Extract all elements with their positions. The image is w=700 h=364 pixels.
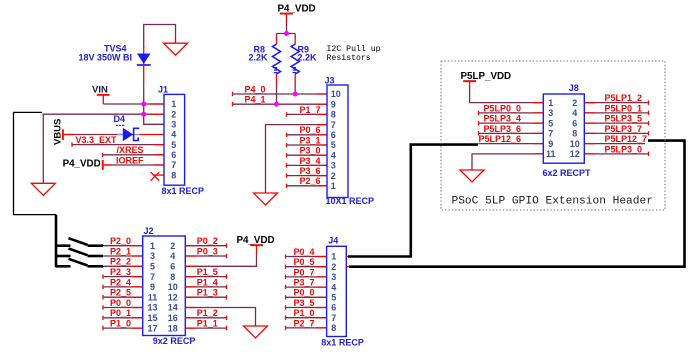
R9 tiny marking bbox=[293, 67, 296, 73]
wire P0_6 to J3 pin 6 bbox=[287, 134, 328, 136]
wire P2_5 to J2 pin 11 bbox=[103, 296, 143, 298]
wire P0_0 to J4 pin 5 bbox=[285, 296, 326, 298]
junction node P4_1/R8 bbox=[274, 102, 279, 107]
dangling end P5LP1_2 bbox=[648, 100, 650, 104]
wire P1_3 from J2 pin 12 bbox=[185, 296, 226, 298]
dangling end P3_4 bbox=[286, 163, 288, 167]
junction node P4_0/R9 bbox=[293, 92, 298, 97]
wire VBUS to J1 pin 2 bbox=[43, 113, 165, 115]
svg-text:P0_1: P0_1 bbox=[110, 308, 131, 318]
wire P1_5 from J2 pin 8 bbox=[185, 276, 226, 278]
dangling end P5LP3_7 bbox=[648, 131, 650, 135]
svg-text:6x2 RECPT: 6x2 RECPT bbox=[543, 168, 592, 178]
J4 pin 2 stub bbox=[346, 266, 350, 268]
svg-text:P2_5: P2_5 bbox=[110, 288, 131, 298]
svg-text:VIN: VIN bbox=[92, 84, 108, 95]
dangling end P5LP3_6 bbox=[478, 131, 480, 135]
svg-text:P0_5: P0_5 bbox=[293, 257, 314, 267]
wire TVS4 anode stub bbox=[143, 46, 145, 55]
wire VIN to J1 pin 1 bbox=[103, 103, 164, 105]
connector J1 body bbox=[164, 94, 185, 185]
dangling end P1_1 bbox=[226, 326, 228, 330]
svg-text:18V 350W BI: 18V 350W BI bbox=[79, 52, 133, 62]
wire P1_7 to J3 pin 8 bbox=[287, 113, 328, 115]
wire P0_4 to J4 pin 1 bbox=[285, 256, 326, 258]
wire J3 pin 7 to ground bbox=[266, 125, 328, 193]
dangling end P4_0 bbox=[232, 92, 234, 96]
wire P3_6 to J3 pin 2 bbox=[287, 175, 328, 177]
svg-text:P5LP0_1: P5LP0_1 bbox=[605, 103, 643, 113]
wire /XRES to J1 pin 6 bbox=[103, 154, 165, 156]
svg-text:I2C Pull up: I2C Pull up bbox=[327, 44, 381, 54]
svg-text:P1_7: P1_7 bbox=[299, 105, 320, 115]
wire resistor tops bbox=[277, 33, 296, 35]
ground bbox=[244, 326, 268, 338]
wire TVS to VIN/VBUS junction bbox=[143, 84, 145, 114]
dangling end P1_4 bbox=[226, 285, 228, 289]
wire P4_VDD stem bbox=[256, 246, 258, 254]
wire black harness loop bbox=[14, 112, 57, 214]
dangling end P0_0 bbox=[102, 305, 104, 309]
wire P0_7 to J4 pin 3 bbox=[285, 276, 326, 278]
J1 pin 2 stub bbox=[150, 113, 164, 115]
wire P5LP3_4 to J8 pin 5 bbox=[479, 122, 544, 124]
svg-text:P1_5: P1_5 bbox=[197, 267, 218, 277]
dangling end P2_4 bbox=[102, 285, 104, 289]
svg-text:P2_0: P2_0 bbox=[110, 236, 131, 246]
no-connect X on J1 pin 8 bbox=[151, 172, 160, 181]
svg-text:V3.3_EXT: V3.3_EXT bbox=[76, 135, 118, 145]
svg-text:P5LP3_0: P5LP3_0 bbox=[605, 144, 643, 154]
dangling end P4_1 bbox=[232, 102, 234, 106]
wire P5LP12_7 from J8 pin 10 bbox=[584, 143, 645, 145]
wire J8 pin 11 to ground bbox=[472, 154, 543, 170]
svg-text:P3_0: P3_0 bbox=[299, 146, 320, 156]
dangling end P3_1 bbox=[286, 143, 288, 147]
R8 tiny marking bbox=[274, 67, 277, 73]
wire P3_1 to J3 pin 5 bbox=[287, 144, 328, 146]
svg-text:P0_3: P0_3 bbox=[197, 246, 218, 256]
wire P5LP3_6 to J8 pin 7 bbox=[479, 132, 544, 134]
dangling end P3_5 bbox=[285, 305, 287, 309]
svg-text:12345678: 12345678 bbox=[171, 99, 176, 180]
TVS diode TVS4 bbox=[137, 54, 151, 66]
dangling end P1_5 bbox=[226, 274, 228, 278]
svg-text:P5LP3_6: P5LP3_6 bbox=[484, 124, 522, 134]
wire VBUS to D4 anode bbox=[64, 134, 123, 136]
dangling end P5LP3_0 bbox=[648, 152, 650, 156]
wire P2_0 to J2 pin 1 bbox=[103, 245, 143, 247]
dangling end P2_7 bbox=[285, 326, 287, 330]
dangling end P1_3 bbox=[226, 295, 228, 299]
wire P1_0 to J4 pin 7 bbox=[285, 317, 326, 319]
svg-text:2.2K: 2.2K bbox=[298, 52, 318, 62]
wire P5LP_VDD to J8 pin 1 bbox=[470, 90, 544, 103]
dangling end P0_5 bbox=[285, 265, 287, 269]
dangling end P3_0 bbox=[286, 153, 288, 157]
junction node P4_VDD bbox=[284, 31, 289, 36]
wire bundle branch 2 bbox=[56, 249, 103, 257]
svg-text:J1: J1 bbox=[158, 84, 168, 94]
svg-text:P5LP12_6: P5LP12_6 bbox=[479, 134, 522, 144]
wire IOREF P4_VDD to J1 pin 7 bbox=[104, 164, 164, 166]
svg-text:P5LP3_5: P5LP3_5 bbox=[605, 114, 643, 124]
svg-text:P3_7: P3_7 bbox=[293, 278, 314, 288]
svg-text:P2_1: P2_1 bbox=[110, 246, 131, 256]
svg-text:2.2K: 2.2K bbox=[249, 52, 269, 62]
wire P0_0 to J2 pin 13 bbox=[103, 307, 143, 309]
svg-text:P2_3: P2_3 bbox=[110, 267, 131, 277]
svg-text:P0_0: P0_0 bbox=[293, 288, 314, 298]
wire R9 to P4_0 bbox=[294, 85, 296, 95]
svg-text:P3_5: P3_5 bbox=[293, 298, 314, 308]
svg-text:P4_VDD: P4_VDD bbox=[63, 159, 101, 170]
wire P0_1 to J2 pin 15 bbox=[103, 317, 143, 319]
svg-text:P1_0: P1_0 bbox=[110, 319, 131, 329]
connector J8 body bbox=[543, 94, 584, 163]
svg-text:P1_1: P1_1 bbox=[197, 319, 218, 329]
J4 pin 1 stub bbox=[346, 256, 350, 258]
connector J3 body bbox=[327, 85, 348, 198]
svg-text:8x1 RECP: 8x1 RECP bbox=[162, 186, 205, 196]
wire P5LP0_1 from J8 pin 4 bbox=[584, 112, 648, 114]
wire P1_2 from J2 pin 16 bbox=[185, 317, 226, 319]
dangling end P1_2 bbox=[226, 316, 228, 320]
wire P2_4 to J2 pin 9 bbox=[103, 286, 143, 288]
wire P1_0 to J2 pin 17 bbox=[103, 327, 143, 329]
dangling end P2_3 bbox=[102, 274, 104, 278]
svg-text:P1_2: P1_2 bbox=[197, 308, 218, 318]
svg-text:P3_6: P3_6 bbox=[299, 166, 320, 176]
svg-text:P0_6: P0_6 bbox=[299, 125, 320, 135]
svg-text:Resistors: Resistors bbox=[327, 53, 371, 63]
wire P2_7 to J4 pin 8 bbox=[285, 327, 326, 329]
dangling end P0_1 bbox=[102, 316, 104, 320]
wire P4_VDD stem bbox=[286, 14, 288, 24]
wire D4 cathode to J1 pin 4 bbox=[140, 134, 165, 136]
svg-text:P1_0: P1_0 bbox=[293, 308, 314, 318]
svg-text:/XRES: /XRES bbox=[116, 145, 143, 155]
wire J2 pin 14 to ground bbox=[185, 308, 255, 327]
wire P5LP12_6 to J8 pin 9 bbox=[479, 143, 544, 145]
svg-text:J4: J4 bbox=[328, 235, 338, 245]
wire P4_0 to J3 pin 10 bbox=[233, 93, 328, 95]
dangling end V3.3_EXT bbox=[71, 142, 73, 146]
dangling end P0_7 bbox=[285, 275, 287, 279]
dangling end P5LP0_0 bbox=[478, 111, 480, 115]
svg-text:P1_3: P1_3 bbox=[197, 288, 218, 298]
svg-text:P0_4: P0_4 bbox=[293, 247, 314, 257]
svg-text:P3_4: P3_4 bbox=[299, 156, 320, 166]
dangling end P5LP3_5 bbox=[648, 121, 650, 125]
wire P2_2 to J2 pin 5 bbox=[103, 265, 143, 267]
svg-text:P1_4: P1_4 bbox=[197, 277, 218, 287]
wire P1_1 from J2 pin 18 bbox=[185, 327, 226, 329]
svg-text:12345678: 12345678 bbox=[331, 252, 336, 333]
dangling end P3_6 bbox=[286, 173, 288, 177]
junction node VIN/TVS bbox=[141, 102, 146, 107]
svg-text:P5LP12_7: P5LP12_7 bbox=[605, 134, 648, 144]
dangling end P0_3 bbox=[226, 254, 228, 258]
svg-text:D4: D4 bbox=[114, 114, 126, 124]
ground bbox=[31, 183, 55, 195]
svg-text:P0_2: P0_2 bbox=[197, 236, 218, 246]
wire TVS4 top to ground bbox=[144, 25, 176, 49]
wire P5LP3_5 from J8 pin 6 bbox=[584, 122, 648, 124]
svg-text:P2_4: P2_4 bbox=[110, 277, 131, 287]
wire P5LP3_0 from J8 pin 12 bbox=[584, 153, 648, 155]
wire VBUS branch down to ground bbox=[42, 114, 44, 183]
wire P3_5 to J4 pin 6 bbox=[285, 307, 326, 309]
connector J4 body bbox=[327, 246, 347, 336]
wire R8 to P4_1 bbox=[276, 85, 278, 105]
wire P4_VDD to J2 pin 6 bbox=[185, 254, 256, 266]
wire thick J4 pin1 to J8 P5LP12_6 bbox=[348, 145, 478, 257]
svg-text:P0_0: P0_0 bbox=[110, 298, 131, 308]
dangling end P0_6 bbox=[286, 133, 288, 137]
wire P5LP3_7 from J8 pin 8 bbox=[584, 132, 648, 134]
J1 pin 1 stub bbox=[150, 103, 164, 105]
svg-text:P4_1: P4_1 bbox=[245, 95, 266, 105]
svg-text:10X1 RECP: 10X1 RECP bbox=[326, 196, 375, 206]
svg-text:P2_6: P2_6 bbox=[299, 176, 320, 186]
wire P2_1 to J2 pin 3 bbox=[103, 255, 143, 257]
svg-text:P3_1: P3_1 bbox=[299, 135, 320, 145]
J1 pin 8 stub bbox=[154, 174, 165, 176]
svg-text:P5LP0_0: P5LP0_0 bbox=[484, 103, 522, 113]
connector J2 body bbox=[143, 236, 186, 336]
wire P0_5 to J4 pin 2 bbox=[285, 266, 326, 268]
svg-text:J3: J3 bbox=[325, 75, 335, 85]
D4 tiny part marking bbox=[116, 125, 124, 126]
wire P2_6 to J3 pin 1 bbox=[287, 185, 328, 187]
dangling end P2_6 bbox=[286, 184, 288, 188]
svg-text:IOREF: IOREF bbox=[116, 155, 144, 165]
wire P0_2 from J2 pin 2 bbox=[185, 245, 226, 247]
wire P2_3 to J2 pin 7 bbox=[103, 276, 143, 278]
svg-text:8x1 RECP: 8x1 RECP bbox=[321, 337, 364, 347]
svg-text:9x2 RECP: 9x2 RECP bbox=[153, 336, 196, 346]
wire P5LP_VDD stem bbox=[469, 82, 471, 90]
svg-text:P5LP1_2: P5LP1_2 bbox=[605, 93, 643, 103]
wire bundle branch 3 bbox=[56, 259, 103, 267]
svg-text:PSoC 5LP GPIO Extension Header: PSoC 5LP GPIO Extension Header bbox=[452, 195, 653, 207]
svg-text:J8: J8 bbox=[569, 83, 579, 93]
wire P5LP1_2 from J8 pin 2 bbox=[584, 102, 648, 104]
power symbol VBUS bbox=[53, 119, 64, 145]
wire P4_1 to J3 pin 9 bbox=[233, 103, 328, 105]
dangling end P1_0 bbox=[285, 316, 287, 320]
dangling end /XRES bbox=[102, 153, 104, 157]
ground bbox=[254, 193, 278, 205]
svg-text:P5LP3_7: P5LP3_7 bbox=[605, 124, 643, 134]
dangling end P1_0 bbox=[102, 326, 104, 330]
wire junction to J1 pin 3 bbox=[144, 114, 164, 124]
svg-text:P4_0: P4_0 bbox=[245, 84, 266, 94]
dangling end P3_7 bbox=[285, 285, 287, 289]
junction node VBUS bbox=[141, 112, 146, 117]
dangling end P5LP0_1 bbox=[648, 111, 650, 115]
dashed boundary PSoC 5LP GPIO Extension Header bbox=[441, 61, 665, 210]
wire V3.3_EXT to J1 pin 5 bbox=[72, 144, 164, 146]
wire TVS4 cathode stub bbox=[143, 63, 145, 84]
dangling end P5LP3_4 bbox=[478, 121, 480, 125]
dangling end P1_7 bbox=[286, 112, 288, 116]
dangling end P2_5 bbox=[102, 295, 104, 299]
svg-text:P0_7: P0_7 bbox=[293, 267, 314, 277]
dangling end P0_4 bbox=[285, 254, 287, 258]
svg-text:J2: J2 bbox=[144, 226, 154, 236]
wire P3_0 to J3 pin 4 bbox=[287, 154, 328, 156]
wire bundle branch 1 bbox=[56, 238, 103, 246]
svg-text:P2_2: P2_2 bbox=[110, 257, 131, 267]
svg-text:P5LP3_4: P5LP3_4 bbox=[484, 114, 522, 124]
wire P0_3 from J2 pin 4 bbox=[185, 255, 226, 257]
wire P1_4 from J2 pin 10 bbox=[185, 286, 226, 288]
wire P3_4 to J3 pin 3 bbox=[287, 164, 328, 166]
wire P3_7 to J4 pin 4 bbox=[285, 286, 326, 288]
dangling end P0_0 bbox=[285, 295, 287, 299]
svg-text:P2_7: P2_7 bbox=[293, 318, 314, 328]
wire harness bundle vertical bbox=[55, 215, 58, 268]
resistor R9 bbox=[294, 34, 296, 39]
wire P5LP0_0 to J8 pin 3 bbox=[479, 112, 544, 114]
ground bbox=[460, 170, 484, 182]
ground bbox=[164, 43, 188, 55]
diode D4 bbox=[117, 128, 141, 141]
dangling end P0_2 bbox=[226, 244, 228, 248]
resistor R8 bbox=[276, 34, 278, 39]
wire thick J4 pin2 to J8 P5LP12_7 bbox=[349, 141, 685, 267]
